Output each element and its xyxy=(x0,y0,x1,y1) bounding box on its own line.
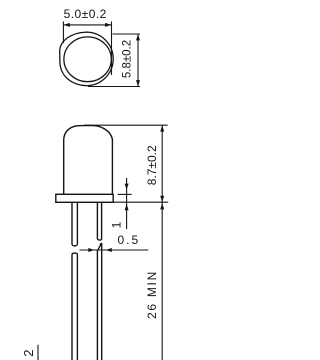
svg-text:5.8±0.2: 5.8±0.2 xyxy=(121,40,133,78)
svg-text:26 MIN: 26 MIN xyxy=(145,270,159,319)
svg-text:8.7±0.2: 8.7±0.2 xyxy=(145,145,159,185)
svg-text:0.5: 0.5 xyxy=(117,233,140,247)
svg-text:5.0±0.2: 5.0±0.2 xyxy=(64,7,107,21)
svg-text:1: 1 xyxy=(109,221,123,228)
svg-text:2: 2 xyxy=(21,350,36,357)
